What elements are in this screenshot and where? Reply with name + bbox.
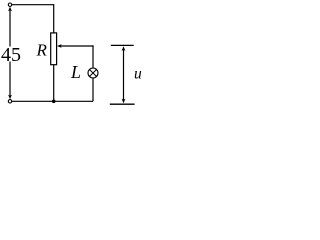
wiper arrow (shaft from lamp branch into resistor) (60, 45, 94, 47)
svg-text:45: 45 (1, 44, 21, 66)
wire (top-right vertical down to resistor) (53, 4, 55, 33)
voltage dimension arrow 45 (lower arrowhead, pointing down) (8, 95, 12, 100)
wire (wiper branch vertical down to lamp) (92, 45, 94, 67)
wire (lamp bottom lead) (92, 78, 94, 101)
u dimension top bar (111, 44, 134, 46)
wire (bottom horizontal) (12, 100, 93, 102)
wire (resistor bottom lead) (53, 65, 55, 102)
resistor R (rheostat body) (51, 33, 57, 65)
voltage dimension arrow 45 (upper shaft) (9, 10, 11, 47)
terminal (top-left, open circle) (8, 3, 11, 6)
voltage dimension arrow 45 (upper arrowhead, pointing up) (8, 7, 12, 12)
junction (dot on bottom wire) (52, 100, 56, 104)
voltage dimension arrow 45 (lower shaft) (9, 62, 11, 97)
svg-text:R: R (36, 40, 48, 59)
terminal (bottom-left, open circle) (8, 100, 11, 103)
u dimension arrow shaft (123, 49, 125, 101)
wiper arrow (arrowhead pointing left at resistor) (57, 44, 62, 48)
u dimension bottom bar (110, 103, 135, 105)
u dimension lower arrowhead (pointing down) (122, 99, 126, 104)
svg-text:L: L (70, 62, 81, 82)
u dimension upper arrowhead (pointing up) (122, 46, 126, 51)
lamp L (circle with X) (88, 68, 98, 78)
wire (top horizontal) (12, 4, 54, 6)
svg-text:u: u (134, 66, 142, 83)
